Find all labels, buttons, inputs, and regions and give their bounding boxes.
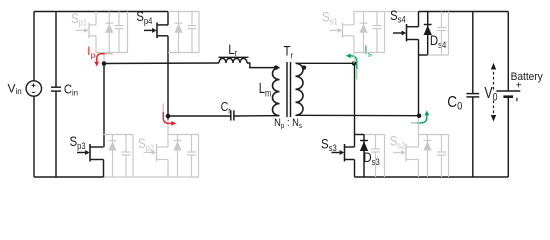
label Ds3	[363, 150, 380, 167]
label Is (green)	[364, 45, 371, 58]
transistor Sp1 (ghost group)	[95, 12, 97, 25]
snubber capacitor of Ss2	[441, 135, 443, 153]
svg-text:Vin: Vin	[8, 81, 22, 96]
wire transformer secondary bottom to node D	[296, 114, 420, 116]
body diode of Sp1	[108, 12, 110, 53]
dashed arrow V0 down	[493, 101, 495, 116]
label C0	[447, 94, 462, 113]
wire Lr to transformer primary (with step)	[247, 63, 280, 68]
group frame Sp1	[96, 12, 128, 53]
transistor Sp4	[144, 29, 152, 31]
svg-text:Lm: Lm	[259, 80, 272, 99]
group frame Ss2	[419, 135, 449, 178]
svg-text:Ss4: Ss4	[390, 8, 406, 25]
svg-text:C0: C0	[447, 94, 462, 113]
current arrow (green) at node D	[411, 122, 418, 124]
svg-text:Np : Ns: Np : Ns	[274, 117, 302, 130]
svg-text:Lr: Lr	[228, 42, 237, 58]
svg-text:Ss2: Ss2	[390, 134, 406, 151]
bus Ss3 top	[355, 134, 365, 136]
bottom rail secondary	[355, 176, 509, 178]
current arrow Ip (red) at node A	[104, 53, 113, 55]
wire transformer secondary top to node C	[296, 62, 355, 64]
label V0	[484, 84, 498, 104]
svg-text:Ss1: Ss1	[322, 10, 338, 27]
wire leg A vertical (node A to Sp3 drain)	[103, 64, 105, 148]
snubber capacitor of Ss3 (ghost)	[375, 135, 377, 150]
group frame Sp3 (ghost)	[104, 135, 134, 178]
transistor Sp2 (ghost group)	[167, 116, 169, 120]
label Ss3	[321, 136, 337, 153]
svg-text:+: +	[516, 80, 522, 91]
transistor Ss2 (ghost group)	[418, 118, 420, 177]
svg-text:V0: V0	[484, 84, 498, 104]
body diode of Ss1	[363, 12, 365, 53]
label Vin	[8, 81, 22, 96]
top rail secondary ghost part	[354, 11, 419, 13]
wire Sp3 source to bottom rail	[103, 160, 105, 178]
body diode Ds4	[427, 12, 429, 56]
top rail secondary black part	[419, 11, 509, 13]
label Lr	[228, 42, 237, 58]
label Sp2	[138, 136, 154, 153]
wire Ss4 source down to node D	[418, 40, 420, 116]
snubber capacitor of Sp1	[118, 12, 120, 26]
capacitor C0	[472, 12, 474, 94]
svg-text:Ds4: Ds4	[430, 33, 447, 50]
svg-text:Cr: Cr	[221, 100, 231, 116]
body diode of Sp3 (ghost)	[112, 135, 114, 178]
label Np : Ns	[274, 117, 302, 130]
svg-text:Sp3: Sp3	[70, 134, 86, 151]
transformer Tr primary winding (Lm)	[273, 68, 280, 116]
group frame Sp2	[168, 135, 199, 178]
battery minus sign	[516, 98, 518, 101]
wire node A to Lr	[104, 62, 219, 65]
snubber capacitor of Sp3 (ghost)	[125, 135, 127, 153]
bottom rail primary ghost part	[104, 176, 200, 178]
label Sp4	[136, 9, 152, 26]
label Ss1	[322, 10, 338, 27]
body diode of Sp2	[177, 135, 179, 178]
wire Sp4 drain to top rail	[167, 12, 169, 25]
label Tr	[284, 44, 294, 61]
wire Sp4 source down to node B	[167, 36, 169, 116]
inductor Lr	[219, 56, 249, 58]
polarity dot secondary	[302, 65, 306, 69]
svg-text:Is: Is	[364, 45, 371, 58]
snubber capacitor of Ss4 (ghost)	[441, 12, 443, 28]
body diode of Ss2	[427, 135, 429, 178]
label Ss2	[390, 134, 406, 151]
capacitor Cr	[231, 110, 234, 120]
current arrow (red) at node B	[162, 104, 164, 113]
voltage source Vin	[26, 81, 41, 96]
node A junction dot	[102, 61, 107, 66]
group frame Sp4 (ghost)	[168, 12, 199, 53]
body diode of Sp4 (ghost)	[178, 12, 180, 53]
node C junction dot	[352, 61, 357, 66]
group frame Ss1	[354, 12, 385, 53]
group frame Ss4 (ghost right edge)	[448, 12, 450, 56]
wire Cr to transformer primary bottom	[234, 115, 280, 117]
label Ds4	[430, 33, 447, 50]
label Lm	[259, 80, 272, 99]
transformer core	[287, 62, 291, 117]
bus Ss4 bottom	[419, 54, 428, 56]
svg-text:Ds3: Ds3	[363, 150, 380, 167]
svg-text:Tr: Tr	[284, 44, 294, 61]
wire node B to Cr	[168, 115, 231, 117]
current arrow Is (green) at node C	[356, 68, 358, 80]
transistor Ss4	[393, 32, 402, 34]
wire top rail primary (black)	[34, 11, 168, 13]
snubber capacitor of Sp4 (ghost)	[191, 12, 193, 26]
polarity dot primary	[274, 65, 278, 69]
group frame Ss3 (ghost right edge)	[384, 135, 386, 178]
label Ip (red)	[87, 46, 95, 60]
bottom rail primary black part	[34, 176, 104, 178]
wire leg C vertical (node C down to Ss3)	[354, 63, 356, 147]
transformer Tr secondary winding	[296, 63, 304, 115]
svg-text:Sp1: Sp1	[71, 11, 87, 28]
label Cin	[64, 82, 78, 97]
snubber capacitor of Ss1	[376, 12, 378, 26]
battery	[507, 12, 509, 92]
wire left input rail	[33, 12, 35, 178]
transistor Ss3	[332, 152, 340, 154]
label Cr	[221, 100, 231, 116]
transistor Sp3	[77, 152, 85, 154]
wire Ss3 source to bottom rail	[354, 160, 356, 178]
wire Ss4 drain to top rail	[418, 12, 420, 27]
label Battery	[511, 72, 544, 83]
svg-text:Cin: Cin	[64, 82, 78, 97]
node B junction dot	[166, 114, 171, 119]
snubber capacitor of Sp2	[191, 135, 193, 153]
svg-text:Sp2: Sp2	[138, 136, 154, 153]
svg-text:Ip: Ip	[87, 46, 95, 60]
transistor Ss1 (ghost group)	[353, 12, 355, 53]
svg-text:Ss3: Ss3	[321, 136, 337, 153]
label Sp3	[70, 134, 86, 151]
label Sp1	[71, 11, 87, 28]
body diode Ds3	[363, 135, 365, 178]
node D junction dot	[417, 114, 422, 119]
capacitor Cin	[55, 12, 57, 88]
dashed arrow V0 up	[493, 69, 495, 90]
label Ss4	[390, 8, 406, 25]
